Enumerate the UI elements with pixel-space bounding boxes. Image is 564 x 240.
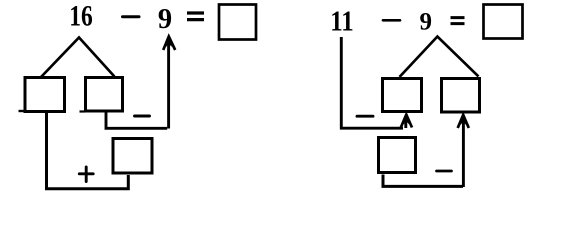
minus label on result wire [437, 170, 452, 173]
minus label on take-from-ten wire [135, 115, 150, 118]
svg-text:9: 9 [158, 4, 172, 35]
minus label on 11 wire [357, 115, 373, 118]
wire from left part box down right and up to result box [47, 113, 129, 189]
part box right under 16 [80, 78, 123, 112]
answer box right [484, 5, 523, 39]
plus label [79, 167, 93, 182]
wire from 11 down and right [341, 37, 403, 128]
svg-text:11: 11 [330, 6, 354, 37]
minus sign of 16-9 [123, 15, 140, 18]
number bond branches under 16 [42, 38, 114, 77]
answer box left [219, 5, 256, 40]
equals sign left [187, 13, 204, 20]
part box right under 9 [442, 79, 480, 113]
number bond branches under 9 [400, 37, 477, 77]
wire from result box down and right [383, 175, 463, 187]
wire from right part box down and right [106, 111, 167, 128]
result box left diagram [113, 139, 152, 174]
result box right diagram [379, 138, 416, 173]
arrow up to 9 [163, 37, 175, 129]
equals sign right [451, 18, 465, 24]
minus sign of 11-9 [383, 19, 400, 22]
svg-text:16: 16 [69, 1, 93, 33]
part box left under 16 [19, 78, 65, 112]
arrow up into left part box [401, 115, 412, 129]
svg-text:9: 9 [419, 9, 432, 36]
arrow up into right part box [458, 115, 469, 187]
part box left under 9 [383, 79, 422, 112]
